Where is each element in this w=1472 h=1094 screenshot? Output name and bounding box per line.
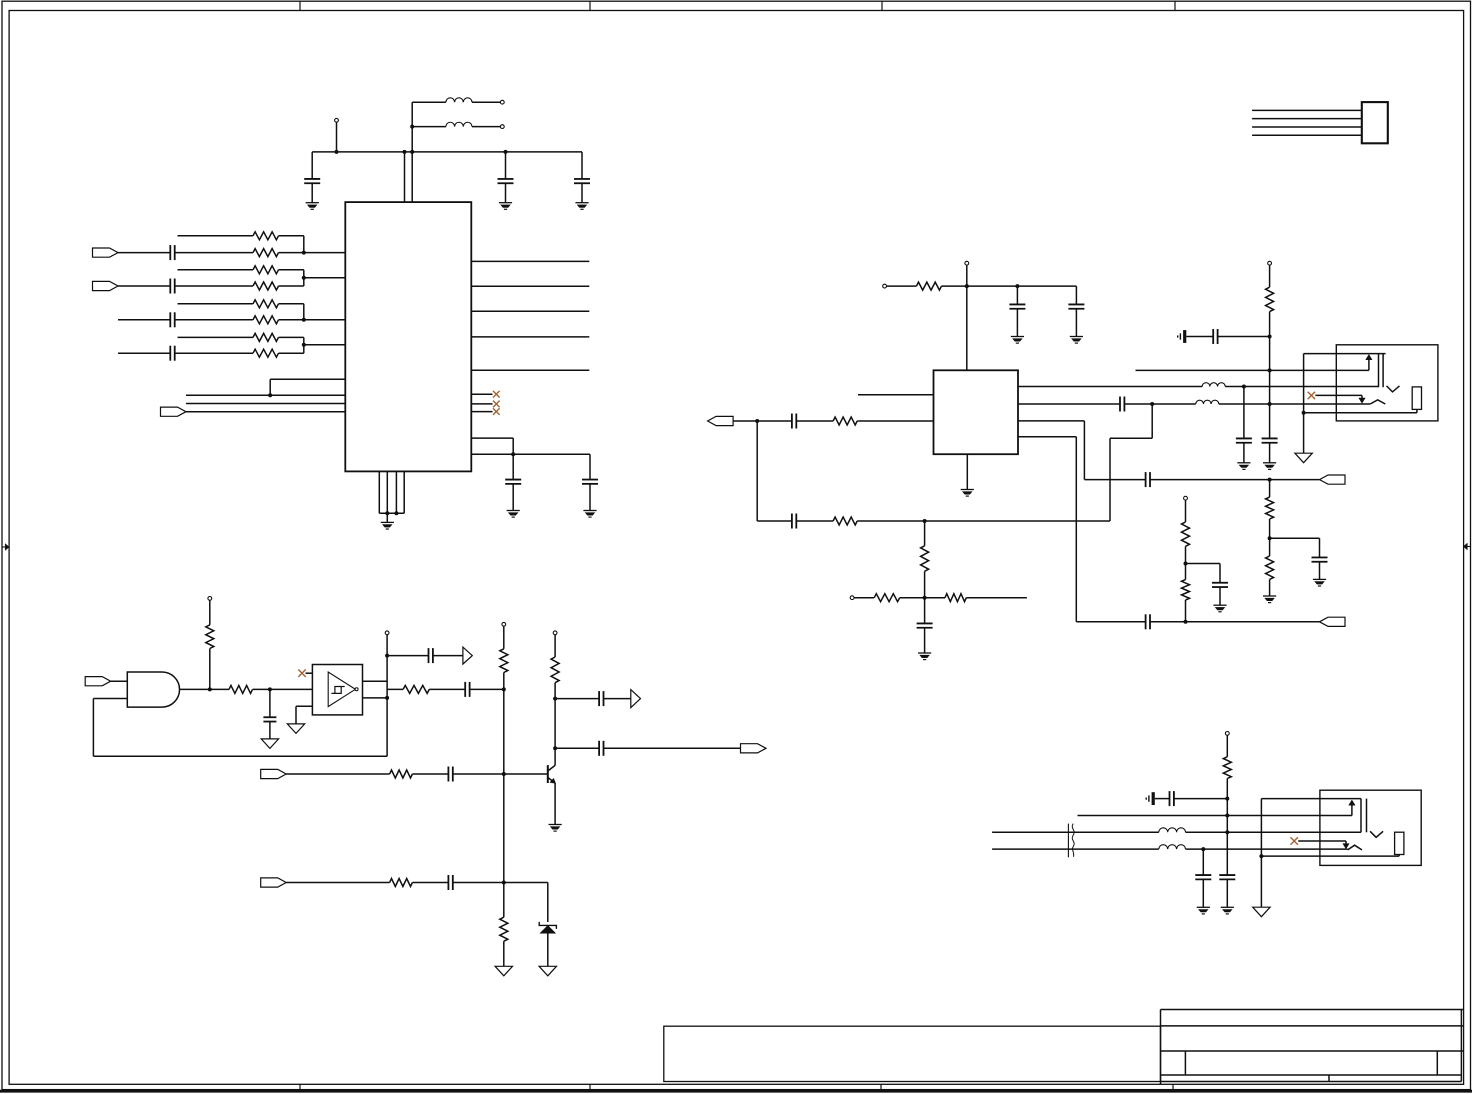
resistor R12	[924, 521, 926, 546]
input row 4: capacitor C7, resistor R7, resistor R8	[118, 352, 170, 354]
terminal R13 input	[850, 596, 854, 600]
port CTL2	[261, 878, 287, 887]
ground C1	[306, 202, 319, 204]
signal ground left lower	[1152, 792, 1155, 805]
inductor L5	[1159, 828, 1186, 832]
port IN3	[161, 407, 187, 416]
connector J1 body	[1362, 102, 1388, 143]
capacitor C9	[589, 454, 591, 479]
ground U1	[381, 521, 394, 523]
jack J2 tip contact	[1378, 354, 1380, 388]
wire jack2 sleeve bottom	[1261, 855, 1399, 857]
wire U1 out 2	[471, 285, 589, 287]
resistor R27 divider top	[1269, 480, 1271, 498]
capacitor C32	[1312, 556, 1328, 558]
border bottom thick line	[0, 1090, 1472, 1093]
ground C22	[261, 739, 278, 749]
wire jack sleeve	[1303, 354, 1305, 454]
capacitor C16	[1145, 472, 1147, 487]
ground R22	[495, 966, 512, 976]
title block divider bottom strip	[1328, 1075, 1330, 1082]
wire jack sleeve bottom	[1304, 412, 1417, 414]
border centre arrow right	[1467, 546, 1471, 548]
capacitor C14	[924, 598, 926, 624]
wire U1 pin row d	[186, 411, 345, 413]
terminal R21 top	[502, 622, 506, 626]
wire U1 out 3	[471, 310, 589, 312]
ground C11	[1070, 336, 1083, 338]
connector J1 pin 3	[1252, 126, 1362, 128]
ground jack J2	[1295, 453, 1312, 463]
wire feedback	[92, 699, 94, 757]
jack J2 sleeve terminal	[1412, 387, 1421, 410]
jack J3 tip arrow	[1351, 805, 1353, 816]
terminal R17 top	[1268, 261, 1272, 265]
wire to C18	[1186, 563, 1221, 565]
title block divider cell 2	[1436, 1051, 1438, 1075]
resistor R23	[551, 657, 559, 683]
resistor R26	[1223, 757, 1231, 779]
border zone tick bottom 2	[589, 1084, 591, 1089]
border zone tick bottom 4	[1172, 1084, 1174, 1089]
wire U1 supply right	[411, 102, 413, 202]
ground C32	[1313, 578, 1326, 580]
title block divider cell 1	[1184, 1051, 1186, 1075]
wire branch down	[756, 421, 758, 521]
no-connect U4 pin	[298, 670, 305, 677]
border zone tick bottom 1	[299, 1084, 301, 1089]
ground C2	[499, 202, 512, 204]
resistor R13	[874, 594, 900, 602]
resistor R22	[500, 917, 508, 941]
resistor R28 divider bottom	[1269, 538, 1271, 556]
title block frame	[1161, 1010, 1464, 1085]
wire bias rail lower	[1226, 779, 1228, 876]
wire U2 out pin4	[1018, 436, 1076, 438]
ground C8	[507, 510, 520, 512]
capacitor C18	[1212, 582, 1228, 584]
port OUT3	[1320, 617, 1346, 626]
break mark	[1067, 824, 1069, 858]
terminal U2 VCC	[965, 261, 969, 265]
no-connect pin 1	[471, 393, 492, 395]
schmitt output bubble	[355, 688, 358, 691]
wire U1 bypass b	[471, 453, 590, 455]
zener diode D1	[539, 922, 556, 929]
capacitor C19 on bias rail	[1262, 437, 1278, 439]
capacitor C29	[1219, 874, 1235, 876]
wire U1 supply left	[404, 152, 406, 202]
ground C19	[1263, 462, 1276, 464]
terminal R15 top	[1184, 496, 1188, 500]
input row 3: capacitor C6, resistor R5, resistor R6	[118, 319, 170, 321]
port DET	[741, 744, 767, 753]
node supply junction 1	[403, 150, 407, 154]
wire bias rail	[1269, 312, 1271, 439]
wire U1 pin row b	[186, 394, 345, 396]
no-connect jack J3 ring sense	[1291, 837, 1298, 844]
inductor L4	[1196, 400, 1219, 404]
U1 ground pins	[378, 471, 380, 513]
ground Q1	[549, 824, 562, 826]
capacitor C26	[555, 747, 599, 749]
border zone tick top 2	[589, 1, 591, 10]
ground R28	[1263, 595, 1276, 597]
capacitor C23	[387, 655, 428, 657]
input row 1: capacitor C4, resistor R1, resistor R2	[93, 248, 119, 257]
wire to gate input	[111, 680, 128, 682]
jack J2 body	[1336, 345, 1438, 421]
wire U1 pin row a	[270, 378, 345, 380]
wire U2 out pin2 with capacitor C15	[1018, 403, 1120, 405]
ground C10	[1011, 336, 1024, 338]
border zone tick top 1	[299, 1, 301, 10]
wire centre rail	[503, 689, 505, 917]
capacitor C20	[1186, 336, 1213, 338]
ground C9	[583, 510, 596, 512]
wire U4 out 1	[363, 680, 388, 682]
capacitor C3	[581, 152, 583, 179]
wire U1 out 4	[471, 336, 589, 338]
resistor R15	[1182, 522, 1190, 546]
border zone tick bottom 3	[880, 1084, 882, 1089]
ground C29	[1221, 906, 1234, 908]
wire jack sense row	[1136, 369, 1369, 371]
connector J1 pin 4	[1252, 134, 1362, 136]
wire U2 supply rail	[967, 285, 1077, 287]
terminal R9 input	[883, 284, 887, 288]
jack J3 tip spring contact	[1370, 831, 1383, 837]
resistor R17	[1266, 287, 1274, 311]
schmitt hysteresis symbol	[331, 687, 344, 694]
resistor R21	[500, 649, 508, 673]
ground C31	[1197, 906, 1210, 908]
jack J2 tip arrow	[1368, 359, 1370, 370]
capacitor C1	[311, 152, 313, 179]
wire jack2 tip top	[1261, 798, 1361, 800]
inductor L2	[412, 126, 446, 128]
resistor R19 pull-up	[206, 625, 214, 649]
jack J2 ring spring contact	[1370, 400, 1385, 404]
power rail wire	[312, 151, 582, 153]
connector J1 pin 2	[1252, 118, 1362, 120]
no-connect pin 2	[471, 403, 492, 405]
terminal R26 top	[1225, 732, 1229, 736]
ground C18	[1213, 604, 1226, 606]
jack J3 sleeve terminal	[1395, 832, 1404, 854]
wire row 2: capacitor C13, resistor R11	[757, 520, 792, 522]
port CLKOUT	[463, 647, 472, 664]
no-connect jack J2 ring sense	[1308, 392, 1315, 399]
inductor L1	[412, 101, 446, 103]
ic U2	[934, 370, 1019, 454]
resistor R25 and capacitor C28	[286, 882, 389, 884]
inductor L6	[1159, 845, 1186, 849]
wire U2 out pin1	[1018, 386, 1202, 388]
port EN	[85, 677, 111, 686]
U4 ground pin	[296, 705, 312, 707]
capacitor C17	[1145, 614, 1147, 629]
node supply junction 2	[410, 150, 414, 154]
input row 2: capacitor C5, resistor R3, resistor R4	[93, 281, 119, 290]
jack J3 body	[1320, 790, 1421, 865]
capacitor C25	[555, 698, 599, 700]
resistor R18	[210, 688, 229, 690]
wire U4 out 2	[363, 697, 388, 699]
ground C14	[918, 652, 931, 654]
capacitor C31	[1202, 849, 1204, 875]
ground C21	[1237, 462, 1250, 464]
wire to C32	[1270, 537, 1320, 539]
capacitor C22	[269, 689, 271, 717]
capacitor C8	[512, 454, 514, 479]
jack J2 tip spring contact	[1387, 386, 1400, 392]
no-connect pin 3	[471, 411, 492, 413]
wire gate input 2	[93, 698, 127, 700]
port OUT2	[1320, 475, 1346, 484]
capacitor C21	[1243, 387, 1245, 439]
wire U1 pin row c	[186, 403, 345, 405]
resistor R16	[1185, 564, 1187, 580]
wire line left B	[992, 831, 1159, 833]
wire to zener	[547, 883, 549, 923]
port MUTE	[631, 690, 641, 708]
port CTL1	[261, 769, 287, 778]
wire feedback loop to U2 pin2	[1109, 438, 1111, 521]
wire line left C	[992, 848, 1159, 850]
resistor R9	[916, 282, 941, 290]
wire collector rail	[554, 699, 556, 749]
ground D1	[539, 966, 556, 976]
wire U1 out 1	[471, 260, 589, 262]
schmitt trigger U4 triangle	[328, 672, 355, 707]
terminal OSC	[385, 631, 389, 635]
wire jack2 sense row	[1078, 815, 1352, 817]
ground jack J3	[1253, 907, 1270, 917]
capacitor C30	[1155, 798, 1170, 800]
terminal R19 top	[208, 597, 212, 601]
terminal R23 top	[553, 631, 557, 635]
resistor R24 and capacitor C27	[286, 773, 389, 775]
ground C3	[575, 202, 588, 204]
terminal TP1	[335, 118, 339, 122]
jack J3 tip contact	[1360, 799, 1362, 833]
ground U4	[287, 724, 304, 734]
transistor Q1	[554, 748, 556, 765]
capacitor C10	[1016, 286, 1018, 304]
port OUTL	[708, 416, 734, 425]
wire U1 out 5	[471, 369, 589, 371]
inductor L3	[1202, 383, 1225, 387]
wire input row L: capacitor C12, resistor R10	[733, 420, 792, 422]
wire U1 bypass a	[471, 437, 513, 439]
node inductor tap	[410, 125, 414, 129]
notes box	[664, 1026, 1161, 1081]
wire U2 out pin3	[1018, 420, 1084, 422]
jack J3 ring spring contact	[1348, 845, 1362, 850]
border zone tick top 4	[1174, 1, 1176, 10]
resistor R14	[925, 597, 945, 599]
ic U1	[345, 202, 471, 471]
border zone tick top 3	[881, 1, 883, 10]
wire U2 left pin 1	[858, 394, 934, 396]
capacitor C2	[504, 150, 508, 154]
resistor R20 and capacitor C24	[387, 688, 403, 690]
wire gate output	[180, 688, 210, 690]
capacitor C11	[1075, 286, 1077, 304]
connector J1 pin 1	[1252, 109, 1362, 111]
wire jack tip top	[1304, 353, 1386, 355]
signal ground left	[1183, 330, 1186, 343]
and gate U3	[127, 672, 179, 707]
schmitt trigger U4 body	[312, 665, 362, 715]
wire jack2 sleeve	[1260, 799, 1262, 908]
border centre arrow left	[2, 546, 6, 548]
ground U2	[966, 454, 968, 489]
